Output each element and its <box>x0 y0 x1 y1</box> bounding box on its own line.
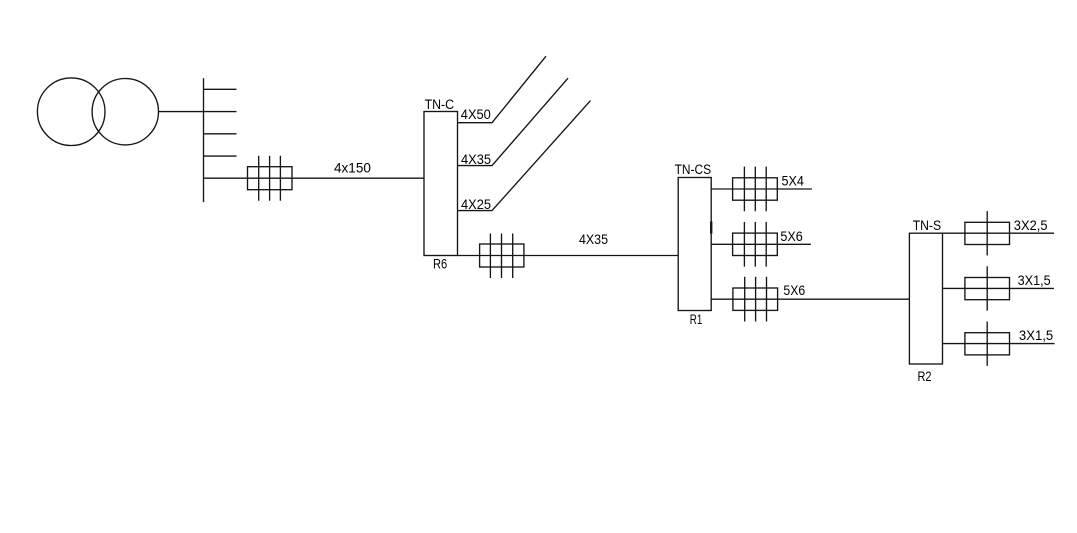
cable symbol 4X35 <box>480 234 524 279</box>
svg-text:TN-S: TN-S <box>913 218 941 234</box>
wire TN-C to TN-CS <box>458 255 678 257</box>
wire TN-S output 3X2,5 <box>943 232 1055 234</box>
busbar tick 4 <box>204 155 237 157</box>
svg-text:5X6: 5X6 <box>783 283 805 299</box>
wire TN-CS output 5X6 b to TN-S <box>711 298 909 300</box>
wire TN-S output 3X1,5 b <box>943 343 1055 345</box>
cable symbol 5X6 a <box>733 222 778 267</box>
busbar tick 3 <box>204 133 237 135</box>
cable symbol 3X1,5 b <box>965 322 1010 366</box>
svg-text:4X50: 4X50 <box>461 107 491 123</box>
svg-text:4X25: 4X25 <box>461 197 491 213</box>
wire busbar to TN-C <box>204 177 425 179</box>
wire TN-CS output 5X4 <box>711 188 812 190</box>
svg-text:4X35: 4X35 <box>461 152 491 168</box>
cable symbol 4x150 <box>248 156 293 201</box>
feeder wire 4X50 <box>458 56 546 123</box>
distribution board TN-CS R1 <box>678 178 711 311</box>
svg-text:4x150: 4x150 <box>334 160 371 176</box>
feeder wire 4X35 <box>458 78 568 165</box>
feeder wire 4X25 <box>458 101 591 211</box>
cable symbol 3X1,5 a <box>965 266 1010 310</box>
svg-text:4X35: 4X35 <box>579 232 608 248</box>
busbar tick 1 <box>204 88 237 90</box>
breaker tick on TN-CS <box>710 222 712 234</box>
distribution board TN-C R6 <box>424 112 458 256</box>
transformer T1 <box>37 78 158 146</box>
busbar <box>203 78 205 202</box>
svg-text:TN-C: TN-C <box>425 97 455 113</box>
wire TN-CS output 5X6 a <box>711 243 811 245</box>
svg-text:3X1,5: 3X1,5 <box>1019 328 1053 344</box>
svg-text:R6: R6 <box>433 256 447 272</box>
svg-text:TN-CS: TN-CS <box>675 162 712 178</box>
wire transformer to busbar <box>159 111 237 113</box>
svg-text:5X6: 5X6 <box>780 229 802 245</box>
svg-text:3X2,5: 3X2,5 <box>1014 218 1048 234</box>
cable symbol 5X4 <box>733 167 778 212</box>
cable symbol 3X2,5 <box>965 211 1010 255</box>
cable symbol 5X6 b <box>733 277 778 322</box>
svg-text:R1: R1 <box>690 312 703 328</box>
svg-text:R2: R2 <box>918 369 932 385</box>
svg-text:5X4: 5X4 <box>782 173 804 189</box>
svg-text:3X1,5: 3X1,5 <box>1018 273 1051 289</box>
distribution board TN-S R2 <box>909 233 942 364</box>
wire TN-S output 3X1,5 a <box>943 287 1054 289</box>
